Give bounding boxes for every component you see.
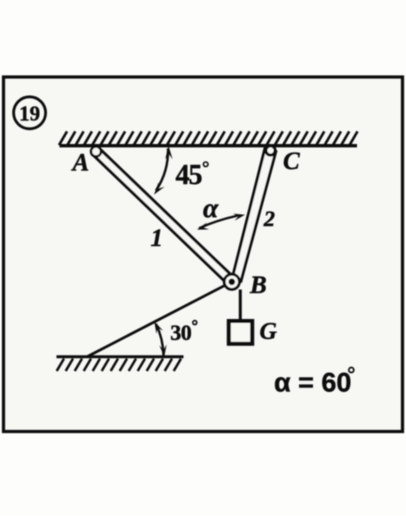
degree mark of 30 [193,321,197,325]
ceiling hatching [59,131,358,145]
border frame [4,77,403,432]
svg-text:B: B [249,272,267,299]
svg-text:30: 30 [170,320,192,345]
joint B center dot [229,279,236,286]
ceiling line [60,144,358,147]
svg-text:2: 2 [263,206,275,231]
svg-text:G: G [260,319,278,345]
degree mark of 60 [349,368,354,373]
arrowhead of alpha arc toward rod 2 [233,214,245,221]
arrowhead of 45 arc toward rod 1 [154,182,165,194]
svg-text:C: C [283,148,300,175]
problem number 19 badge [14,97,46,129]
alpha angle arc at B [199,216,238,229]
pin support C [266,146,275,155]
arrowhead of 30 arc toward link bar [154,321,163,334]
svg-text:19: 19 [19,101,40,125]
pin support A [91,147,101,157]
30 degree angle arc at floor vertex [156,324,164,356]
floor line [57,355,184,358]
svg-text:45: 45 [176,160,202,191]
link bar 3 from floor to joint B [88,282,232,357]
joint B outer circle [224,274,239,289]
arrowhead of alpha arc toward rod 1 [197,223,209,230]
floor hatching [57,359,181,371]
rod 2 (bar C-B) [232,149,276,281]
45 degree angle arc at A [156,149,168,191]
string from B to weight [239,290,242,322]
svg-text:α = 60: α = 60 [274,368,351,398]
degree mark of 45 [203,162,208,167]
weight box G [229,321,252,344]
svg-text:A: A [71,150,90,177]
svg-text:α: α [203,192,219,223]
arrowhead of 30 arc toward floor [159,345,166,357]
svg-text:1: 1 [151,225,164,252]
rod 1 (bar A-B) [93,148,235,285]
arrowhead of 45 arc toward ceiling [165,146,172,160]
